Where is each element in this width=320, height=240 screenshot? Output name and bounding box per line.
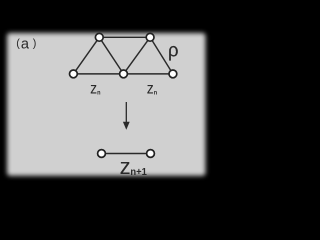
svg-text:(: (: [16, 37, 20, 49]
svg-text:n: n: [154, 90, 158, 96]
svg-text:z: z: [120, 154, 131, 179]
svg-text:ρ: ρ: [168, 40, 179, 62]
svg-text:a: a: [21, 37, 30, 53]
svg-text:): ): [33, 37, 37, 49]
svg-text:n: n: [97, 90, 101, 96]
svg-text:z: z: [90, 79, 97, 97]
svg-text:n+1: n+1: [130, 167, 147, 178]
svg-text:z: z: [147, 79, 154, 97]
